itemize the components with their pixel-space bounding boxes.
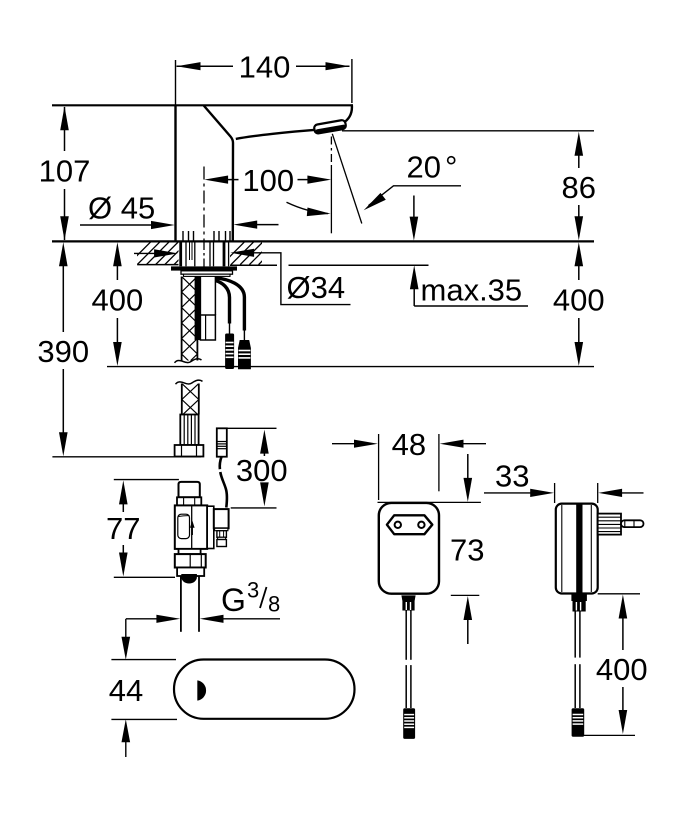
cable 1 plug — [225, 334, 234, 370]
diameter 45 arrows — [80, 224, 153, 226]
cable conduit column — [199, 277, 201, 316]
adapter jack connector — [403, 708, 415, 739]
right 400 dim top tick — [598, 593, 640, 595]
diameter 34 arrows — [134, 252, 158, 254]
20 deg leader — [369, 186, 462, 206]
sensor cable sheath — [195, 277, 200, 341]
valve outlet fitting — [177, 568, 204, 577]
73 dim top — [378, 501, 481, 503]
svg-text:400: 400 — [92, 282, 144, 317]
300 dim bottom tick — [231, 507, 277, 509]
73 dim bottom — [451, 594, 480, 596]
cable 2 — [215, 278, 244, 331]
max.35 leader underline — [414, 305, 528, 307]
right 400 dim — [619, 595, 628, 619]
G3/8 pipe — [180, 576, 182, 632]
max.35 arrows — [413, 196, 415, 219]
390 dim — [59, 242, 68, 266]
valve inlet stem — [179, 482, 200, 497]
140 dim line — [177, 65, 234, 67]
aerator — [314, 120, 347, 135]
wall plug strain relief — [571, 594, 587, 602]
adapter cable — [405, 611, 407, 660]
svg-text:107: 107 — [39, 154, 91, 189]
cable junction box — [200, 315, 215, 340]
flange washer plate — [181, 271, 233, 274]
counter hatch left — [128, 242, 197, 265]
valve cable plug — [217, 428, 227, 456]
adapter body front — [379, 503, 439, 594]
svg-text:390: 390 — [37, 334, 89, 369]
valve flow arrow — [191, 528, 193, 536]
valve outlet dark cap — [181, 574, 197, 583]
plug pin — [621, 520, 644, 527]
spout axis dash-dot — [330, 137, 332, 166]
86 top extension line — [342, 130, 594, 132]
adapter strain relief — [401, 595, 415, 601]
svg-text:77: 77 — [106, 511, 140, 546]
svg-text:Ø34: Ø34 — [287, 270, 346, 305]
wall plug dark band — [576, 504, 582, 594]
86 dim — [578, 154, 580, 168]
shank centerline — [203, 241, 205, 267]
svg-text:3: 3 — [247, 578, 259, 603]
braided hose lower squiggle — [176, 380, 203, 384]
right 400 dim bottom tick — [580, 734, 635, 736]
140 dim extension lines — [175, 60, 177, 105]
spout axis solid — [330, 165, 332, 233]
33 ext lines — [554, 483, 556, 503]
390 bottom tick line — [52, 456, 201, 458]
cover plate oval — [174, 660, 355, 719]
svg-text:400: 400 — [553, 282, 605, 317]
spout underside — [236, 130, 316, 139]
braided hose upper — [182, 277, 198, 370]
right 400 dim — [575, 242, 584, 266]
44 dim lower — [122, 719, 131, 742]
hose break squiggle — [175, 359, 202, 363]
valve lower neck — [179, 549, 201, 554]
svg-text:Ø 45: Ø 45 — [88, 191, 155, 226]
braided hose lower — [182, 384, 199, 416]
shank internal lines above counter — [183, 231, 230, 241]
faucet right curve — [345, 104, 352, 122]
svg-text:°: ° — [445, 150, 457, 185]
shank internal lines in counter hole — [181, 242, 229, 267]
svg-text:44: 44 — [109, 673, 143, 708]
svg-text:140: 140 — [239, 50, 291, 85]
wall plug jack connector — [572, 708, 585, 736]
svg-text:400: 400 — [596, 652, 648, 687]
plug snout — [598, 514, 621, 535]
diameter 34 leader — [252, 253, 351, 305]
300 dim — [260, 430, 269, 454]
cable 2 plug — [238, 340, 251, 369]
48 ext lines — [378, 434, 380, 500]
svg-text:max.35: max.35 — [421, 273, 523, 308]
valve outlet nut — [175, 554, 206, 567]
top reference line — [52, 104, 352, 106]
solenoid flange — [207, 506, 214, 548]
faucet centerline — [203, 167, 205, 241]
300 dim top tick — [227, 427, 277, 429]
pillar left edge — [174, 105, 176, 240]
44 dim upper — [125, 619, 127, 638]
counter hatch right — [222, 242, 282, 265]
valve inlet collar — [177, 497, 201, 505]
valve cable — [220, 457, 222, 470]
counter top line — [52, 240, 594, 242]
euro socket outline — [387, 515, 432, 534]
sensor window — [197, 680, 206, 700]
hose crimp sleeve — [180, 415, 198, 446]
counter bottom lines — [137, 264, 178, 266]
20 deg arc arrow — [287, 202, 329, 213]
solenoid connector stack — [215, 528, 228, 530]
svg-text:73: 73 — [450, 532, 484, 567]
svg-text:20: 20 — [407, 150, 441, 185]
20 deg slant line — [332, 134, 362, 224]
wall plug body side — [556, 504, 598, 594]
valve body — [175, 505, 207, 549]
107 dim — [64, 107, 66, 151]
svg-text:G: G — [221, 582, 246, 618]
400 level line — [107, 366, 594, 368]
100 dim — [227, 179, 239, 181]
valve window — [178, 514, 190, 538]
faucet front slope and pillar right edge — [204, 106, 233, 241]
48 dim — [332, 443, 357, 445]
solenoid coil — [214, 509, 229, 528]
hose nut — [175, 445, 204, 457]
socket holes — [395, 522, 401, 528]
77 dim ticks — [114, 479, 179, 481]
wall plug cable — [574, 612, 576, 658]
77 dim — [119, 480, 128, 504]
svg-text:33: 33 — [495, 458, 529, 493]
svg-text:100: 100 — [242, 163, 294, 198]
G3/8 dim arrows — [126, 618, 160, 620]
svg-text:86: 86 — [562, 170, 596, 205]
mounting flange — [171, 266, 237, 270]
svg-text:48: 48 — [392, 427, 426, 462]
left 400 dim — [113, 242, 122, 266]
cable 1 — [215, 281, 229, 324]
svg-text:8: 8 — [268, 592, 280, 617]
